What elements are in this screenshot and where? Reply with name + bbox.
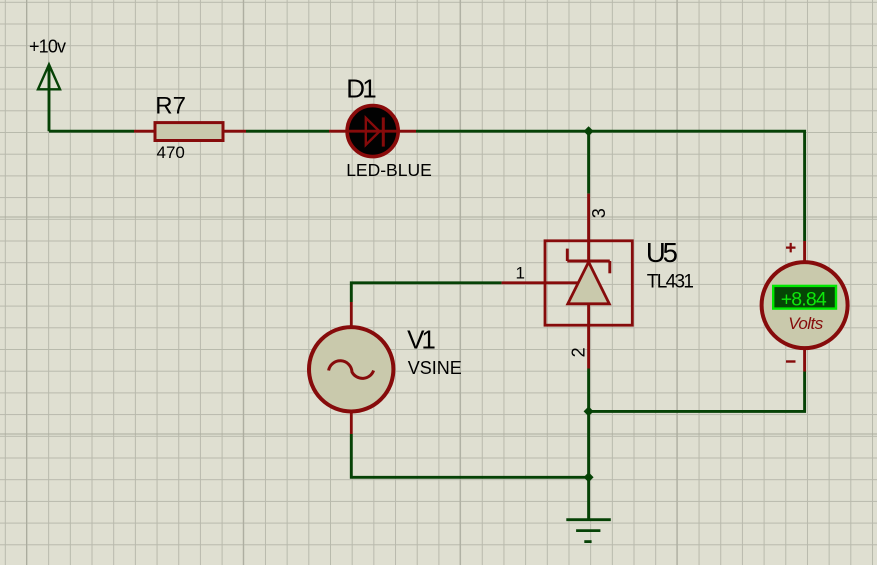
svg-text:470: 470 (157, 143, 185, 162)
svg-text:3: 3 (589, 208, 609, 218)
svg-text:Volts: Volts (788, 314, 824, 333)
svg-text:1: 1 (516, 264, 525, 283)
svg-text:2: 2 (568, 347, 588, 357)
svg-text:R7: R7 (155, 92, 186, 119)
svg-text:TL431: TL431 (647, 272, 694, 293)
svg-text:+8.84: +8.84 (781, 289, 827, 311)
svg-text:LED-BLUE: LED-BLUE (346, 160, 432, 180)
svg-text:VSINE: VSINE (408, 358, 462, 378)
svg-text:U5: U5 (646, 237, 678, 268)
svg-text:D1: D1 (346, 74, 377, 104)
svg-text:V1: V1 (407, 324, 436, 354)
svg-text:+10v: +10v (29, 36, 66, 56)
